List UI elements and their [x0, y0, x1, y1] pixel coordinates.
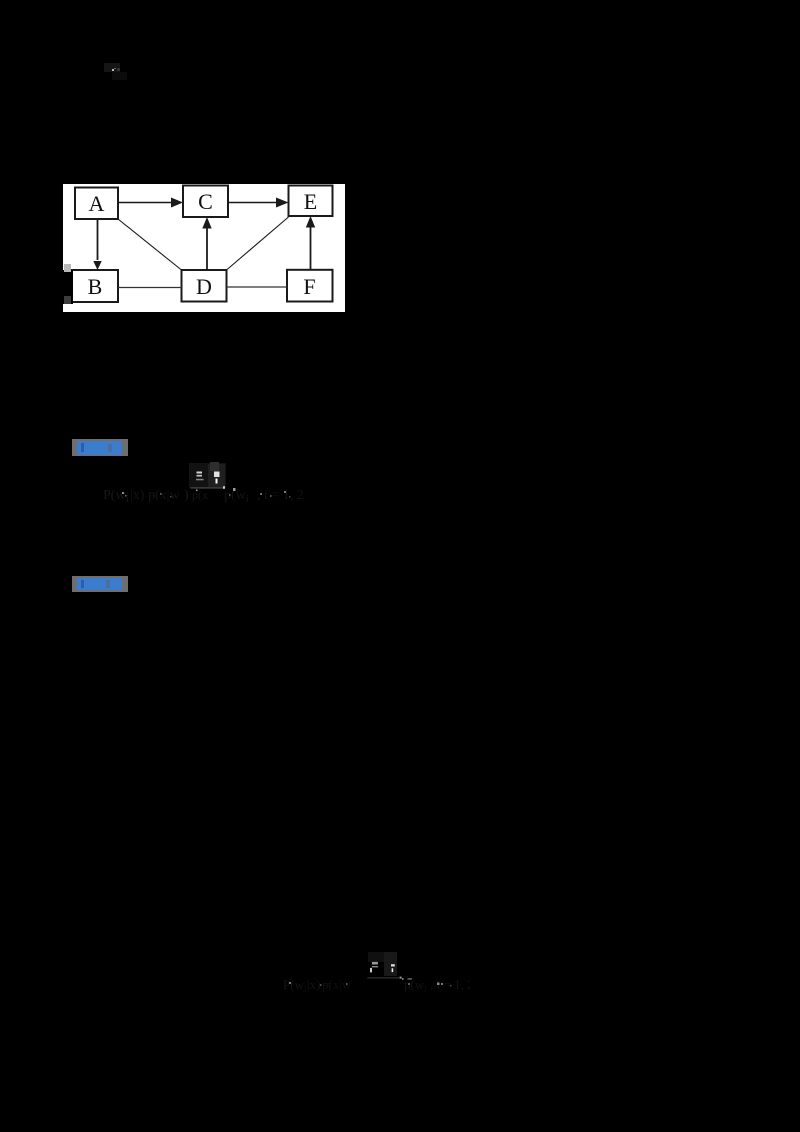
node A — [75, 188, 118, 220]
svg-text:, i = 1, 2: , i = 1, 2 — [257, 488, 304, 503]
node B — [72, 270, 118, 302]
node D — [182, 270, 227, 302]
fraction fragment — [367, 952, 412, 980]
svg-text:A: A — [89, 191, 105, 216]
node C — [183, 186, 228, 218]
faint bright specks — [122, 488, 291, 498]
svg-text:E: E — [304, 189, 317, 214]
svg-text:p(w: p(w — [404, 977, 425, 992]
edge A-D diagonal — [118, 219, 182, 270]
badge 1 — [72, 439, 128, 456]
svg-text:p(x: p(x — [192, 488, 208, 502]
badge 2 — [72, 576, 128, 592]
svg-text:): ) — [184, 488, 189, 503]
edge D-E diagonal — [227, 217, 289, 270]
diagram image (white) — [63, 184, 345, 312]
svg-text:B: B — [88, 274, 103, 299]
svg-text:P(w: P(w — [103, 488, 126, 503]
svg-text:D: D — [196, 274, 212, 299]
edge B-D — [118, 287, 182, 289]
edge A->C — [118, 198, 183, 208]
svg-text:i: i — [246, 494, 249, 505]
edge D->C — [202, 217, 211, 270]
formula 1 (faint) — [100, 455, 320, 505]
node E — [289, 186, 333, 217]
svg-text:C: C — [198, 189, 213, 214]
svg-text:p(x|w: p(x|w — [148, 488, 180, 503]
svg-text:P(w: P(w — [283, 977, 305, 992]
svg-text:F: F — [303, 274, 315, 299]
node F — [287, 270, 333, 302]
edge A->B — [93, 219, 101, 270]
edge F->E — [306, 216, 315, 270]
edge D-F — [227, 286, 288, 288]
svg-text:i: i — [424, 984, 427, 994]
left edge artifacts: black bar + handles — [63, 270, 73, 304]
faint top-left smudge — [104, 63, 120, 72]
edge C->E — [228, 198, 289, 208]
formula 2 (faint, bottom) — [280, 945, 470, 995]
bright fraction fragment — [189, 462, 226, 502]
svg-text:, i = 1, 2: , i = 1, 2 — [430, 977, 470, 992]
